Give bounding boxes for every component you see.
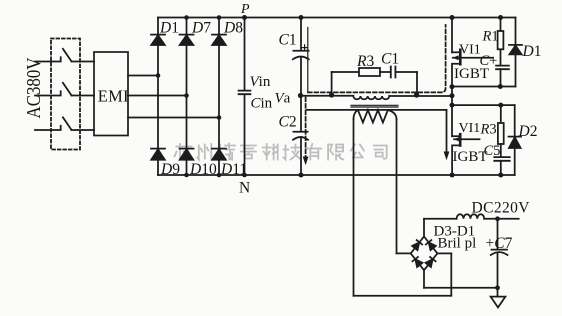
- dashed gate drive line horizontal: [308, 25, 446, 92]
- junction dots DC output: [495, 216, 500, 290]
- snubber middle wire: [380, 71, 391, 73]
- secondary right lead: [396, 119, 398, 253]
- svg-text:C5: C5: [484, 143, 501, 159]
- snubber left riser: [331, 72, 333, 96]
- diode D1 freewheel: [509, 45, 522, 55]
- svg-text:D2: D2: [518, 123, 538, 140]
- R1 to C wire: [500, 49, 502, 65]
- IGBT VT2 symbol: [452, 134, 479, 175]
- diode D1 (bridge top leg1): [151, 35, 165, 45]
- wire phase 1 to EMI: [71, 61, 94, 63]
- switch S2: [63, 83, 72, 96]
- diode D10: [180, 149, 194, 160]
- secondary drive drop with arrow: [446, 110, 448, 152]
- C7 to DC- wire: [497, 254, 499, 288]
- svg-text:EMI: EMI: [98, 87, 129, 106]
- svg-text:R3: R3: [480, 122, 497, 138]
- DC+ output wire: [484, 218, 519, 220]
- C1/C2 divider wire: [300, 18, 302, 176]
- junction dots top rail: [184, 15, 503, 20]
- left lead riser to right vertex: [450, 253, 452, 295]
- R3 to C5 wire: [500, 144, 502, 157]
- svg-text:D7: D7: [191, 20, 211, 37]
- resistor R3 (snubber): [359, 68, 380, 76]
- C5 to cell bottom wire: [500, 161, 502, 175]
- rectifier leg 2 wire: [186, 18, 188, 176]
- DC- return wire: [424, 287, 498, 289]
- capacitor C5: [494, 157, 509, 161]
- thin drive stub line: [307, 28, 309, 93]
- P rail: [158, 17, 516, 19]
- wire phase 2 input: [35, 91, 61, 95]
- svg-text:R3: R3: [356, 53, 374, 70]
- svg-text:AC380V: AC380V: [23, 57, 45, 118]
- watermark text row: [175, 144, 387, 160]
- half-bridge leg upper wire: [451, 18, 453, 53]
- svg-text:D9: D9: [160, 161, 180, 178]
- capacitor C1 (snubber): [391, 67, 396, 78]
- svg-text:N: N: [239, 180, 250, 197]
- bridge diode bottom-right: [425, 257, 435, 267]
- svg-text:C1: C1: [279, 32, 297, 49]
- secondary header line: [307, 109, 447, 111]
- resistor R1 branch wire: [500, 18, 502, 32]
- dashed drive line with arrow below Va: [305, 98, 307, 157]
- capacitor Cin: [239, 91, 251, 95]
- svg-text:DC220V: DC220V: [472, 200, 531, 217]
- node Va dot: [298, 93, 303, 98]
- resistor R3 (bottom cell): [498, 123, 504, 144]
- secondary left end flare: [354, 110, 358, 119]
- svg-text:Va: Va: [275, 91, 291, 107]
- svg-text:P: P: [240, 2, 250, 17]
- rectifier leg 1 wire: [157, 18, 159, 176]
- dashed breaker box: [51, 39, 80, 150]
- bottom cell top wire: [451, 104, 514, 106]
- bridge bottom vertex drop: [423, 270, 425, 288]
- transformer T1 core: [351, 105, 398, 107]
- wire EMI to D8/D11 leg: [128, 117, 219, 119]
- resistor R3 branch wire: [500, 105, 502, 123]
- svg-text:+C7: +C7: [486, 235, 513, 252]
- wire phase 2 to EMI: [71, 95, 94, 97]
- snubber right riser: [416, 72, 418, 96]
- secondary right end flare: [388, 110, 397, 119]
- C7 branch wire: [497, 219, 499, 250]
- svg-text:Cin: Cin: [251, 96, 273, 112]
- transformer T1 secondary winding: [358, 110, 388, 123]
- svg-text:D10: D10: [189, 161, 217, 178]
- snubber capacitor C (top cell): [496, 66, 509, 70]
- primary wire from Va: [301, 95, 354, 97]
- ground stub: [497, 288, 499, 297]
- filter inductor L1: [457, 214, 485, 219]
- primary wire to half-bridge midpoint: [389, 95, 452, 97]
- diode D2 freewheel: [509, 137, 522, 148]
- bridge diode top-left: [412, 240, 422, 250]
- wire phase 3 input: [35, 126, 61, 130]
- diode D11: [212, 149, 226, 160]
- diode D2 branch wire: [514, 105, 516, 175]
- wire EMI to D7/D10 leg: [128, 95, 187, 97]
- wire to filter inductor: [424, 218, 457, 220]
- svg-text:Bril pl: Bril pl: [438, 236, 477, 252]
- transformer T1 primary winding: [353, 96, 389, 99]
- Cin branch wire: [244, 18, 246, 176]
- junction dots primary and leg: [329, 84, 503, 108]
- EMI filter box: [94, 52, 128, 136]
- ground: [491, 297, 506, 308]
- wire phase 1 input: [35, 57, 61, 61]
- N rail: [158, 174, 515, 176]
- svg-text:VI1: VI1: [459, 43, 481, 58]
- bridge diode bottom-left: [412, 257, 422, 267]
- switch S1: [63, 49, 72, 62]
- left lead bottom run: [354, 295, 452, 297]
- svg-text:D8: D8: [223, 20, 243, 37]
- capacitor C7: [491, 250, 508, 255]
- junction dots rectifier inputs: [156, 73, 222, 120]
- svg-text:C+: C+: [480, 53, 498, 69]
- secondary drive arrowhead: [444, 152, 450, 161]
- wire phase 3 to EMI: [71, 129, 94, 131]
- top cell bottom wire: [452, 86, 516, 88]
- svg-text:IGBT: IGBT: [453, 149, 488, 165]
- svg-text:D1: D1: [522, 43, 542, 60]
- rectifier leg 3 wire: [218, 18, 220, 176]
- svg-text:C2: C2: [279, 114, 297, 131]
- bridge top vertex riser: [423, 219, 425, 237]
- right lead stub to left vertex: [397, 252, 411, 254]
- C1 polarity plus: [302, 45, 308, 51]
- C to cell bottom wire: [500, 69, 502, 86]
- svg-text:Vin: Vin: [250, 74, 271, 90]
- capacitor C1 plates: [293, 51, 309, 60]
- right vertex stub: [437, 252, 451, 254]
- svg-text:R1: R1: [482, 29, 499, 45]
- drive arrowhead down: [303, 157, 309, 166]
- switch S3: [63, 117, 72, 130]
- svg-text:D1: D1: [159, 20, 179, 37]
- capacitor C2 plates: [293, 132, 308, 140]
- diode D7: [180, 35, 194, 45]
- resistor R1: [498, 31, 504, 49]
- diode D9: [151, 149, 165, 160]
- bridge diode top-right: [426, 240, 436, 250]
- diode D8: [212, 35, 226, 45]
- snubber top wire right: [396, 71, 417, 73]
- bridge diamond edges: [411, 237, 438, 271]
- svg-text:C1: C1: [381, 51, 399, 68]
- junction dots N rail: [184, 173, 503, 178]
- wire EMI to D1/D9 leg: [128, 75, 158, 77]
- IGBT VT1 symbol: [452, 50, 493, 136]
- snubber top wire left: [332, 71, 359, 73]
- secondary left lead: [353, 119, 355, 296]
- diode D1 (freewheel top) branch wire: [515, 18, 517, 87]
- svg-text:VI1: VI1: [459, 121, 481, 136]
